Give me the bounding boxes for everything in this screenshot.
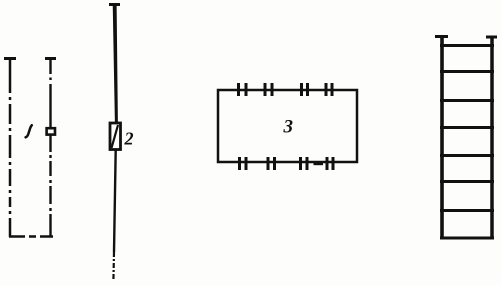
antenna 2: top cap [109, 3, 120, 6]
element 3: heavy retrace dash on bottom edge [314, 162, 324, 165]
frame antenna 1: right vertical dash-dot wire lower [49, 135, 51, 152]
ladder 4: right rail [490, 37, 494, 239]
ladder 4: right top cap [486, 36, 497, 39]
ladder 4: left rail [440, 36, 444, 239]
ladder 4: rung 2 [440, 70, 494, 73]
frame antenna 1: left top cap [4, 57, 16, 60]
frame antenna 1: left vertical dash-dot wire [9, 59, 12, 237]
ladder 4: rung 6 [440, 180, 494, 183]
element 3 bottom tick pair C [299, 157, 302, 170]
frame antenna 1: bottom dash-dot wire [9, 235, 53, 238]
antenna 2: lower wire [114, 150, 116, 252]
ladder 4: left top cap [435, 35, 448, 38]
ladder 4: rung 4 [440, 126, 494, 129]
element 3 bottom tick pair A [238, 157, 241, 170]
antenna 2: upper wire [113, 4, 118, 124]
element 3 top tick pair C [300, 83, 303, 96]
insulator square on antenna 1 [47, 128, 55, 134]
frame antenna 1: right vertical dash-dot wire upper [49, 59, 51, 74]
frame antenna 1: right top cap [45, 57, 56, 60]
ladder 4: rung 1 [440, 44, 494, 47]
antenna 2: lower wire broken end [112, 252, 115, 281]
element 3 top tick pair A [237, 83, 240, 96]
element 3 bottom tick pair B [267, 157, 270, 170]
element 3: rectangle [218, 90, 357, 162]
element 3 bottom tick pair D [326, 157, 329, 170]
element 3 top tick pair D [325, 83, 328, 96]
ladder 4: rung 3 [440, 99, 494, 102]
diagonal inside insulator 2 [112, 125, 119, 148]
ladder 4: rung 5 [440, 154, 494, 157]
ladder 4: bottom rung [440, 237, 494, 240]
insulator rectangle 2 [110, 123, 121, 150]
ladder 4: rung 7 [440, 209, 494, 212]
svg-text:3: 3 [283, 117, 294, 138]
svg-text:2: 2 [124, 129, 134, 149]
element 3 top tick pair B [264, 83, 267, 96]
label 1 [26, 125, 32, 137]
